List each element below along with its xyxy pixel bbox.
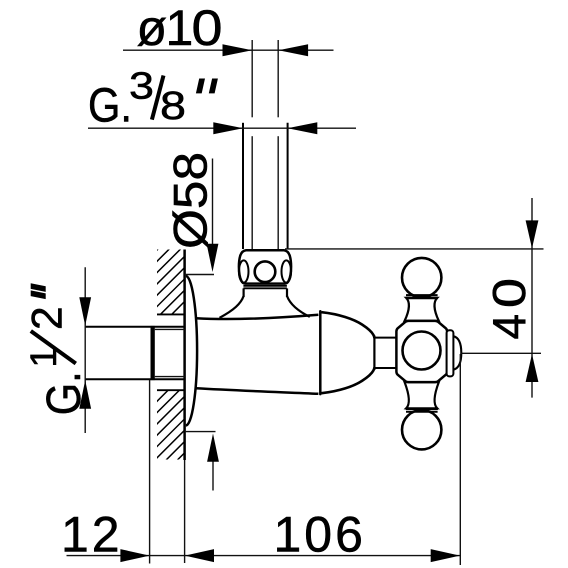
svg-text:3: 3 [129,66,154,108]
svg-text:8: 8 [160,84,186,128]
svg-text:2: 2 [25,306,72,330]
svg-text:ø: ø [137,0,168,56]
svg-text:G.: G. [38,371,91,415]
svg-text:12: 12 [61,507,123,563]
svg-text:0: 0 [483,278,535,308]
svg-text:106: 106 [274,507,366,563]
svg-text:Ø58: Ø58 [164,152,217,249]
svg-text:1: 1 [166,0,194,56]
svg-text:G.: G. [88,80,132,133]
svg-text:4: 4 [483,314,535,340]
svg-text:0: 0 [192,0,223,56]
